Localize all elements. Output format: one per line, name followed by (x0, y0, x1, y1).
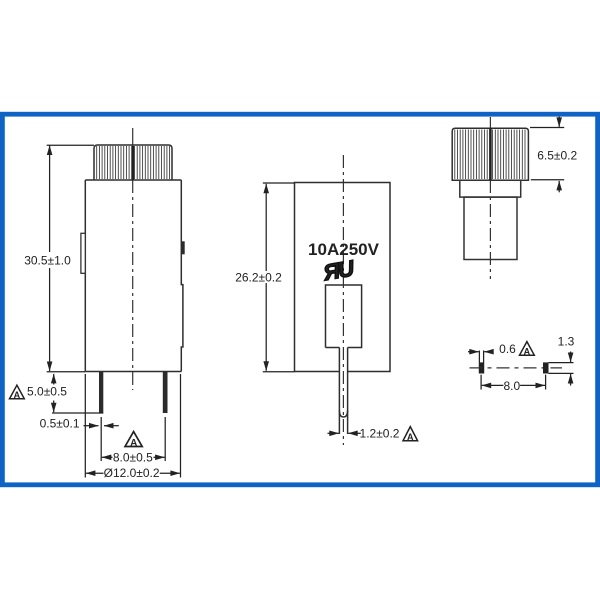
svg-text:1.2±0.2: 1.2±0.2 (360, 426, 400, 440)
svg-text:A: A (524, 347, 531, 357)
svg-text:Ø12.0±0.2: Ø12.0±0.2 (104, 466, 160, 480)
svg-text:A: A (14, 390, 21, 400)
svg-text:8.0: 8.0 (503, 379, 520, 393)
svg-text:5.0±0.5: 5.0±0.5 (27, 385, 67, 399)
svg-text:6.5±0.2: 6.5±0.2 (537, 149, 577, 163)
svg-text:0.5±0.1: 0.5±0.1 (40, 417, 80, 431)
svg-text:A: A (130, 438, 137, 449)
svg-text:30.5±1.0: 30.5±1.0 (24, 254, 71, 268)
svg-text:ЯU: ЯU (321, 255, 357, 285)
svg-text:8.0±0.5: 8.0±0.5 (113, 451, 153, 465)
svg-text:1.3: 1.3 (558, 335, 575, 349)
svg-text:A: A (407, 432, 414, 442)
svg-text:0.6: 0.6 (499, 342, 516, 356)
svg-text:26.2±0.2: 26.2±0.2 (235, 271, 282, 285)
